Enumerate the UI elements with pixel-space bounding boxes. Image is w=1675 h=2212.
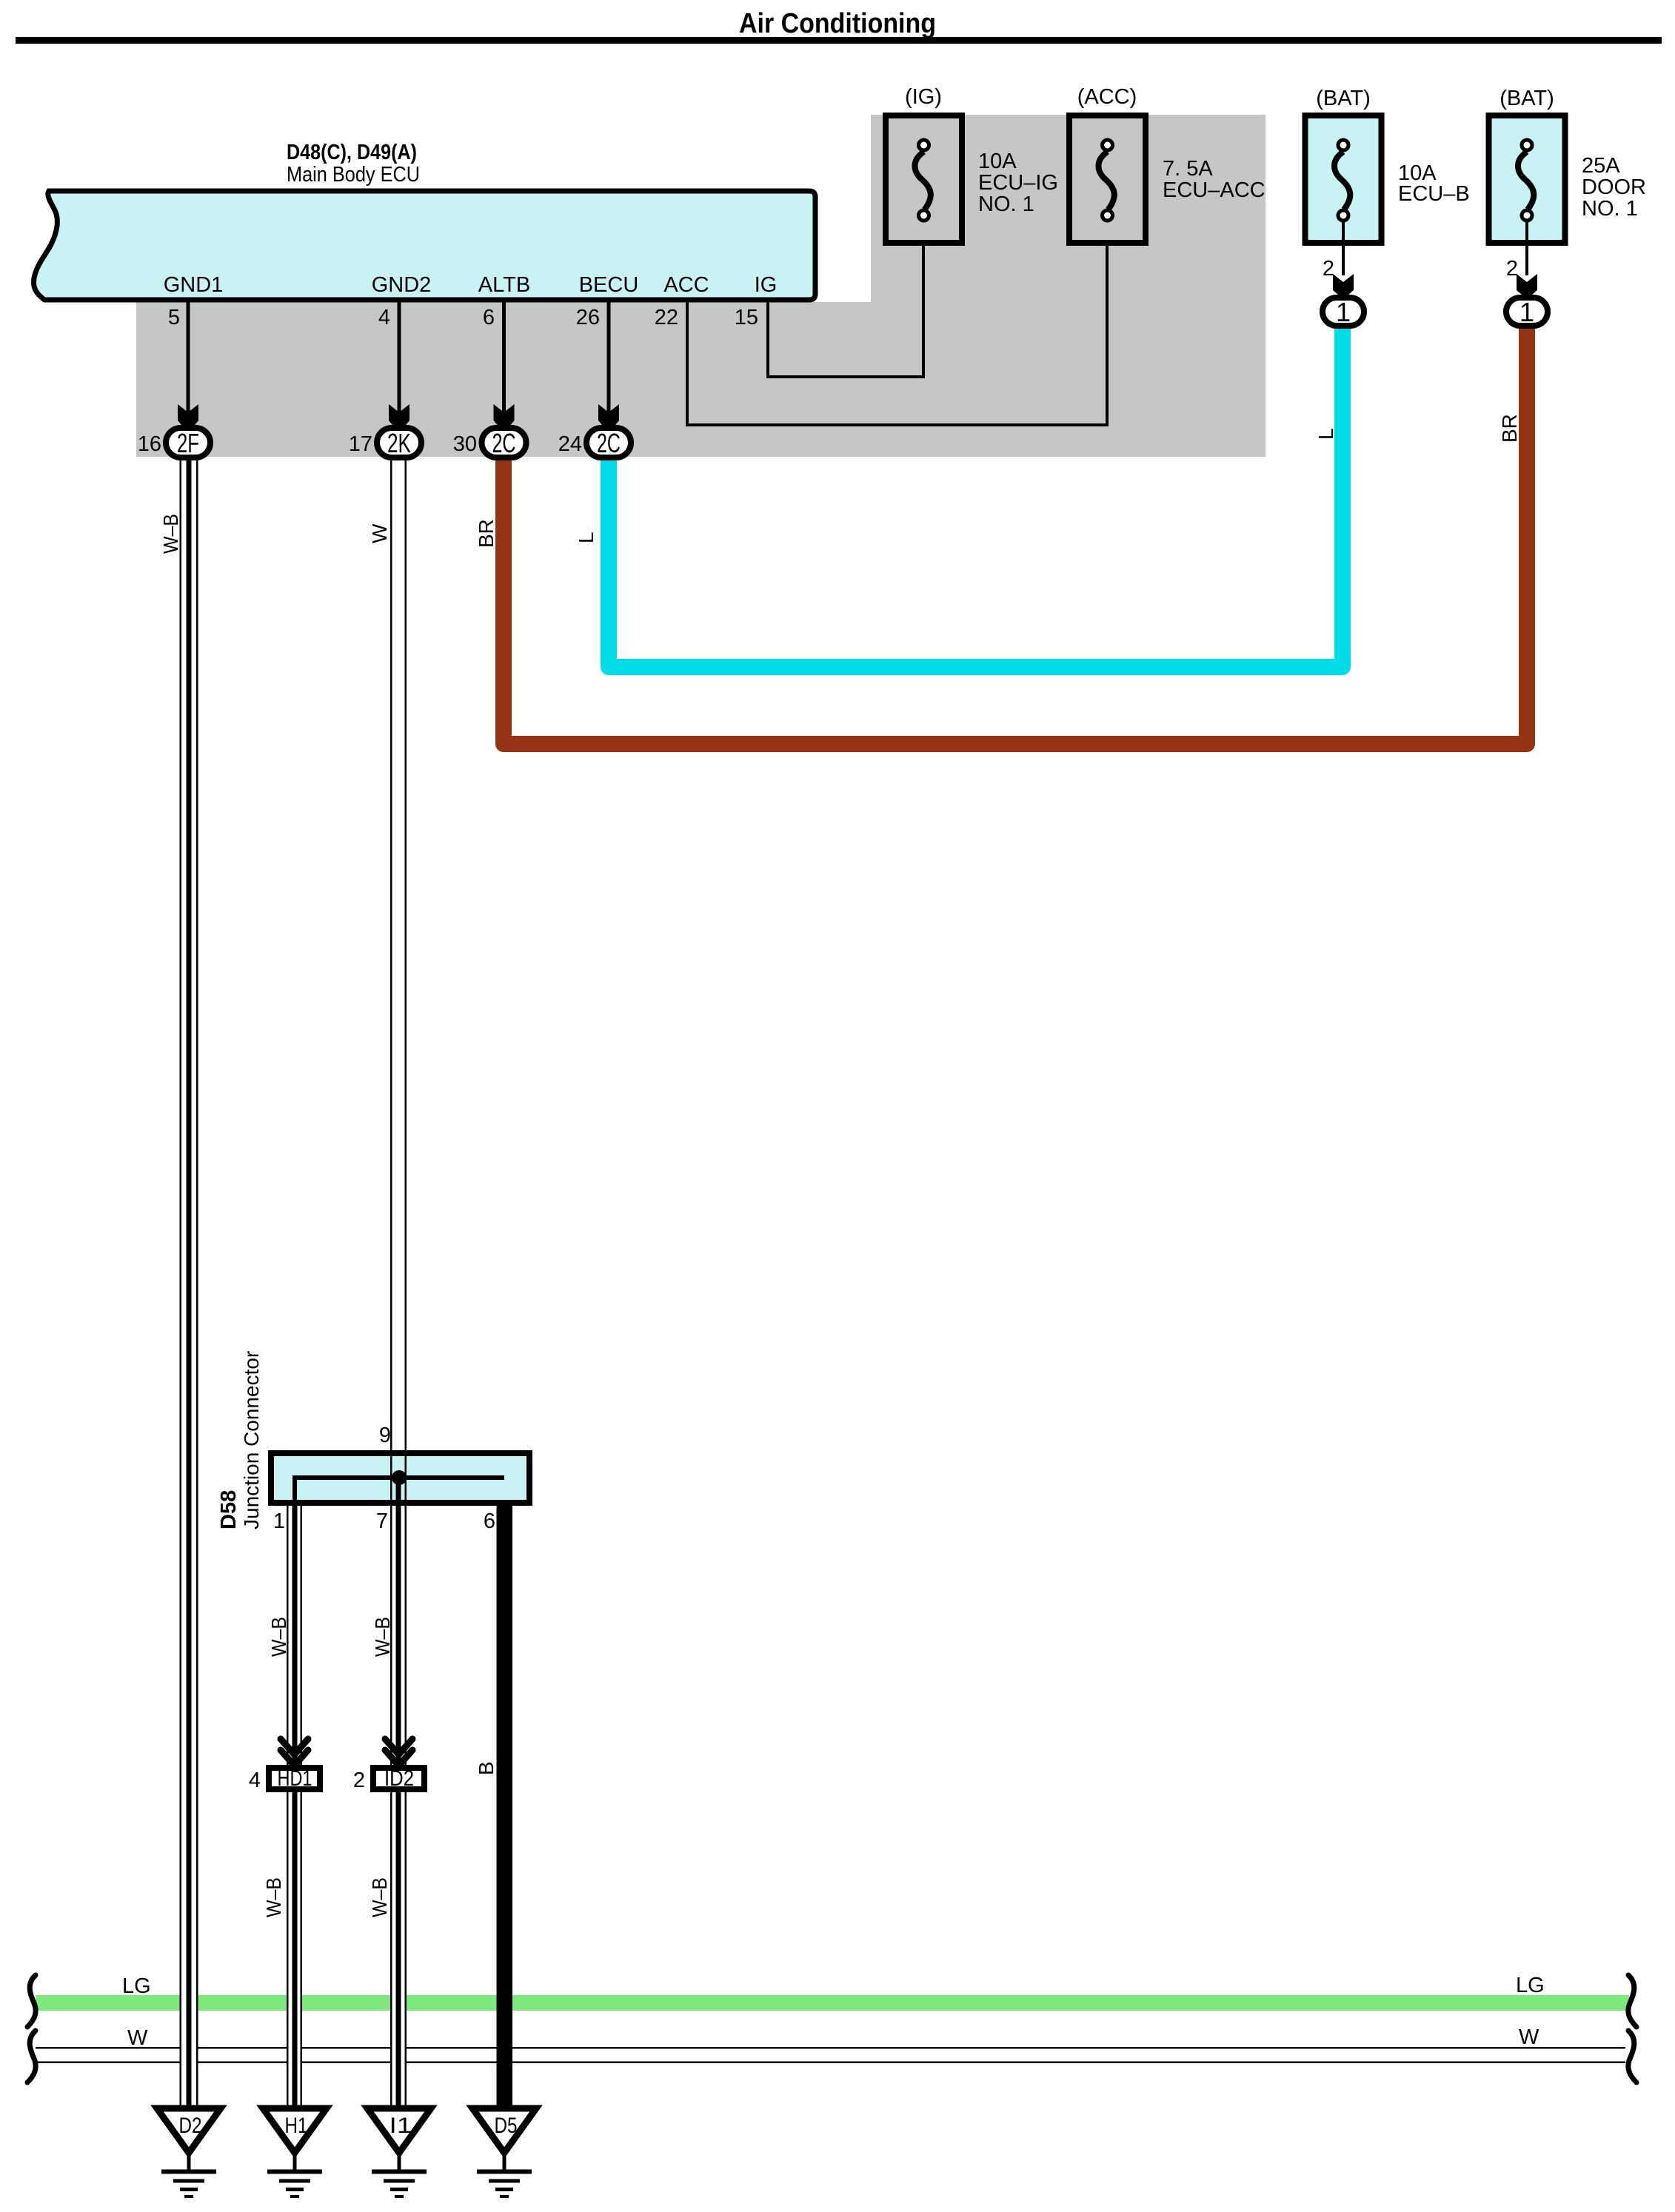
svg-text:H1: H1 bbox=[285, 2114, 308, 2138]
svg-text:2F: 2F bbox=[177, 428, 199, 458]
fuse 10A ECU-B bbox=[1305, 115, 1382, 243]
wire W-B D58 pin7 to ID2 bbox=[396, 1478, 401, 1768]
Main Body ECU box D48(C),D49(A) bbox=[34, 191, 815, 300]
D58 junction dot bbox=[392, 1470, 407, 1485]
junction connector D58 box bbox=[271, 1453, 529, 1503]
svg-text:10A: 10A bbox=[978, 150, 1017, 173]
svg-text:ACC: ACC bbox=[663, 273, 709, 297]
connector oval 30 2C bbox=[482, 428, 526, 458]
wire W-B D58 pin1 to HD1 bbox=[292, 1478, 297, 1506]
svg-text:26: 26 bbox=[576, 306, 600, 329]
harness break symbol left W bbox=[27, 2031, 36, 2082]
svg-text:6: 6 bbox=[483, 306, 495, 329]
svg-text:2: 2 bbox=[1323, 257, 1334, 281]
arrow into 2C (24) bbox=[598, 404, 619, 433]
svg-text:GND2: GND2 bbox=[372, 273, 432, 297]
svg-text:9: 9 bbox=[379, 1424, 391, 1447]
svg-text:1: 1 bbox=[273, 1509, 285, 1533]
connector oval 1 (ECU-B) bbox=[1323, 298, 1364, 326]
wire W from GND2 2K to junction D58 bbox=[390, 453, 407, 1450]
svg-text:4: 4 bbox=[378, 306, 390, 329]
svg-text:BR: BR bbox=[1498, 414, 1521, 443]
wire W-B from GND1 2F to ground D2 bbox=[180, 453, 198, 2108]
connector ID2 bbox=[373, 1768, 424, 1789]
connector oval 16 2F bbox=[166, 428, 210, 458]
svg-text:(BAT): (BAT) bbox=[1316, 87, 1371, 110]
svg-text:7. 5A: 7. 5A bbox=[1163, 157, 1213, 181]
ECU-B fuse output wire pin 2 bbox=[1342, 219, 1345, 275]
W bus wire bbox=[36, 2047, 1625, 2049]
svg-text:2: 2 bbox=[1506, 257, 1518, 281]
svg-text:7: 7 bbox=[376, 1509, 388, 1533]
title rule bbox=[16, 37, 1662, 44]
svg-text:ALTB: ALTB bbox=[478, 273, 530, 297]
svg-text:W: W bbox=[1519, 2025, 1539, 2049]
ground D2 bbox=[157, 2108, 221, 2153]
svg-text:Main Body ECU: Main Body ECU bbox=[287, 163, 420, 187]
svg-text:W–B: W–B bbox=[159, 514, 182, 554]
svg-text:BECU: BECU bbox=[579, 273, 639, 297]
svg-text:L: L bbox=[1314, 428, 1337, 440]
svg-text:25A: 25A bbox=[1582, 154, 1620, 178]
pin stub wires GND1 GND2 ALTB BECU bbox=[187, 300, 190, 413]
wire B D58 pin6 to ground D5 bbox=[497, 1503, 513, 2108]
svg-text:ECU–IG: ECU–IG bbox=[978, 171, 1058, 195]
svg-text:15: 15 bbox=[735, 306, 758, 329]
svg-text:IG: IG bbox=[755, 273, 778, 297]
svg-text:ECU–ACC: ECU–ACC bbox=[1163, 178, 1266, 202]
svg-text:1: 1 bbox=[1336, 297, 1351, 327]
svg-text:W–B: W–B bbox=[262, 1877, 285, 1917]
svg-text:W: W bbox=[127, 2026, 148, 2050]
wire W-B ID2 to ground I1 bbox=[390, 1792, 407, 2108]
svg-text:BR: BR bbox=[475, 519, 498, 548]
svg-text:I1: I1 bbox=[390, 2114, 412, 2138]
svg-text:ECU–B: ECU–B bbox=[1398, 182, 1470, 206]
fuse 25A DOOR NO.1 bbox=[1489, 115, 1565, 243]
svg-text:2: 2 bbox=[353, 1769, 365, 1792]
wire L (cyan) BECU-to-ECU-B-fuse bbox=[609, 324, 1343, 667]
fuse 10A ECU-IG NO.1 bbox=[886, 115, 962, 243]
D58 internal bus bar bbox=[292, 1475, 504, 1480]
svg-text:W–B: W–B bbox=[371, 1617, 394, 1657]
wire W-B HD1 to ground H1 bbox=[287, 1792, 302, 2108]
double chevron arrow into HD1 bbox=[281, 1739, 308, 1754]
arrow into 2C (30) bbox=[494, 404, 515, 433]
DOOR fuse output wire pin 2 bbox=[1525, 219, 1528, 275]
svg-text:30: 30 bbox=[453, 432, 477, 456]
connector oval 1 (DOOR) bbox=[1506, 298, 1548, 326]
svg-text:D48(C), D49(A): D48(C), D49(A) bbox=[287, 141, 417, 164]
svg-text:(BAT): (BAT) bbox=[1500, 87, 1554, 110]
svg-text:4: 4 bbox=[249, 1769, 261, 1792]
svg-text:LG: LG bbox=[1516, 1974, 1545, 1997]
svg-text:16: 16 bbox=[138, 432, 161, 456]
svg-text:(ACC): (ACC) bbox=[1077, 85, 1137, 109]
svg-text:LG: LG bbox=[122, 1974, 151, 1998]
svg-text:ID2: ID2 bbox=[384, 1766, 414, 1791]
LG bus wire bbox=[36, 1995, 1629, 2011]
gray harness background region bbox=[136, 302, 1266, 457]
svg-text:D5: D5 bbox=[495, 2114, 518, 2138]
svg-text:Junction Connector: Junction Connector bbox=[240, 1351, 263, 1529]
svg-text:NO. 1: NO. 1 bbox=[978, 192, 1034, 216]
double chevron arrow into ID2 bbox=[385, 1739, 412, 1754]
svg-text:W: W bbox=[368, 523, 391, 543]
ground D5 bbox=[472, 2108, 536, 2153]
svg-text:2K: 2K bbox=[387, 428, 411, 458]
svg-text:NO. 1: NO. 1 bbox=[1582, 197, 1638, 221]
svg-text:HD1: HD1 bbox=[278, 1766, 312, 1791]
wire BR (brown) ALTB-to-DOOR-fuse bbox=[504, 324, 1527, 744]
svg-text:5: 5 bbox=[168, 306, 180, 329]
ground I1 bbox=[367, 2108, 431, 2153]
harness break symbol right W bbox=[1628, 2031, 1636, 2082]
fuse 7.5A ECU-ACC bbox=[1069, 115, 1146, 243]
wire ACC pin22 to ECU-ACC fuse bbox=[687, 219, 1107, 425]
svg-text:(IG): (IG) bbox=[905, 85, 942, 109]
svg-text:24: 24 bbox=[558, 432, 582, 456]
arrow into 2K bbox=[389, 404, 409, 433]
ground H1 bbox=[263, 2108, 327, 2153]
svg-text:DOOR: DOOR bbox=[1582, 175, 1646, 199]
connector HD1 bbox=[269, 1768, 320, 1789]
svg-text:2C: 2C bbox=[597, 428, 621, 458]
connector oval 17 2K bbox=[377, 428, 421, 458]
svg-text:1: 1 bbox=[1519, 297, 1534, 327]
svg-text:Air Conditioning: Air Conditioning bbox=[739, 8, 936, 39]
svg-text:6: 6 bbox=[484, 1509, 495, 1533]
harness break symbol left LG bbox=[27, 1975, 36, 2027]
svg-text:D58: D58 bbox=[217, 1490, 241, 1529]
arrow into 2F bbox=[178, 404, 198, 433]
svg-text:B: B bbox=[475, 1761, 498, 1775]
svg-text:L: L bbox=[575, 532, 598, 543]
svg-text:GND1: GND1 bbox=[164, 273, 224, 297]
svg-text:D2: D2 bbox=[179, 2114, 202, 2138]
svg-text:17: 17 bbox=[349, 432, 372, 456]
svg-text:W–B: W–B bbox=[368, 1877, 391, 1917]
svg-text:2C: 2C bbox=[492, 428, 516, 458]
svg-text:W–B: W–B bbox=[267, 1617, 290, 1657]
wire IG pin15 to ECU-IG fuse bbox=[768, 219, 923, 377]
harness break symbol right LG bbox=[1628, 1975, 1636, 2027]
connector oval 24 2C bbox=[586, 428, 631, 458]
svg-text:22: 22 bbox=[655, 306, 678, 329]
